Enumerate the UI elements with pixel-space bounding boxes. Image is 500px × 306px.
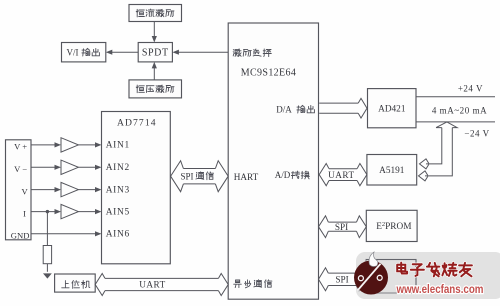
label 输出 bbox=[82, 48, 90, 56]
arrowhead into buffer 1 bbox=[55, 142, 62, 147]
bus arrow D/A output MCU-AD421 bbox=[319, 102, 358, 104]
watermark logo slot bbox=[358, 264, 381, 291]
junction dot on I wire bbox=[46, 210, 49, 213]
wire buffer 2 to AD7714 bbox=[78, 166, 96, 168]
svg-text:UART: UART bbox=[328, 170, 354, 180]
watermark logo flame bbox=[369, 252, 378, 267]
svg-text:HART: HART bbox=[234, 172, 259, 182]
arrowhead into SPDT bottom bbox=[152, 62, 157, 69]
label 异步通信 bbox=[234, 280, 242, 288]
arrowhead into AIN6 bbox=[95, 231, 102, 236]
svg-text:AIN2: AIN2 bbox=[106, 163, 130, 173]
watermark title halo bbox=[397, 263, 407, 274]
svg-text:A/D: A/D bbox=[275, 170, 291, 180]
svg-text:V/I: V/I bbox=[67, 47, 79, 57]
svg-text:V +: V + bbox=[14, 142, 27, 152]
wire loop-arrow right side down-left to A5191 bbox=[425, 128, 452, 176]
op-amp buffer U1 bbox=[61, 138, 78, 152]
wire terminal row 3 to buffer bbox=[31, 189, 56, 191]
label 输出 (D/A) bbox=[297, 105, 305, 113]
arrowhead into SPDT right bbox=[172, 50, 179, 55]
arrowhead into AIN2 bbox=[95, 165, 102, 170]
wire terminal row 2 to buffer bbox=[31, 166, 56, 168]
wire buffer 4 to AD7714 bbox=[78, 211, 96, 213]
bus arrow SPI MCU-display bbox=[328, 272, 356, 274]
label 通信 (SPI通信) bbox=[196, 172, 204, 180]
arrowhead into buffer 2 bbox=[55, 165, 62, 170]
arrowhead into AIN4 bbox=[95, 209, 102, 214]
block constant-current excitation (恒流激励) bbox=[129, 5, 182, 22]
memory block E2PROM bbox=[366, 210, 417, 241]
svg-text:V −: V − bbox=[14, 164, 27, 174]
wire MCU to SPDT bbox=[177, 51, 228, 53]
wire buffer 3 to AD7714 bbox=[78, 189, 96, 191]
svg-text:AIN1: AIN1 bbox=[106, 141, 130, 151]
wire SPDT to V/I output bbox=[111, 51, 138, 53]
svg-text:AD421: AD421 bbox=[378, 104, 406, 114]
svg-text:D/A: D/A bbox=[276, 104, 292, 114]
wire loop-arrow left side down-left to A5191 bbox=[426, 128, 442, 164]
svg-text:A5191: A5191 bbox=[379, 166, 405, 176]
DAC block AD421 bbox=[368, 89, 417, 128]
block SPDT switch bbox=[138, 43, 172, 62]
svg-text:AD7714: AD7714 bbox=[117, 118, 157, 129]
label 上位机 bbox=[62, 281, 69, 288]
MCU block MC9S12E64 (激励选择) bbox=[228, 23, 318, 299]
watermark logo disc bbox=[354, 261, 388, 295]
svg-text:SPI: SPI bbox=[180, 171, 193, 181]
wire GND to AIN6 bbox=[31, 233, 97, 235]
arrowhead into V/I output bbox=[106, 50, 113, 55]
svg-text:AIN5: AIN5 bbox=[106, 207, 130, 217]
hollow arrow A5191 to loop (up head) bbox=[436, 122, 457, 128]
open arrowhead into A5191 (lower) bbox=[419, 171, 428, 181]
display block top edge (over watermark plate) bbox=[366, 260, 416, 294]
display block (bottom right) bbox=[366, 260, 416, 294]
wire 恒压激励 to SPDT bbox=[153, 67, 155, 80]
block host computer (上位机) bbox=[55, 274, 96, 292]
wire 恒流激励 to SPDT bbox=[153, 22, 155, 38]
wire terminal row 1 to buffer bbox=[31, 144, 56, 146]
svg-text:+24 V: +24 V bbox=[458, 84, 483, 94]
label 转换 bbox=[291, 171, 299, 179]
bus arrow UART MCU-A5191 bbox=[329, 168, 357, 170]
svg-text:MC9S12E64: MC9S12E64 bbox=[241, 67, 296, 78]
watermark title 电子发烧友 bbox=[397, 263, 407, 274]
HART modem block A5191 bbox=[367, 155, 417, 186]
watermark logo ring left bbox=[358, 276, 363, 281]
svg-text:SPI: SPI bbox=[335, 222, 348, 232]
label 恒流激励 bbox=[136, 9, 144, 17]
svg-text:4 mA~20 mA: 4 mA~20 mA bbox=[432, 106, 487, 116]
svg-text:AIN6: AIN6 bbox=[106, 230, 130, 240]
arrowhead into buffer 4 bbox=[55, 209, 62, 214]
op-amp buffer U2 bbox=[61, 160, 78, 174]
svg-text:I: I bbox=[23, 208, 26, 218]
arrowhead into AIN1 bbox=[95, 142, 102, 147]
wire +24V rail bbox=[416, 96, 495, 98]
ADC block AD7714 bbox=[102, 112, 171, 264]
terminal block (V+,V-,V,I,GND) bbox=[6, 140, 32, 240]
watermark background plate bbox=[356, 252, 500, 299]
wire -24V rail bbox=[416, 121, 495, 123]
arrowhead into buffer 3 bbox=[55, 187, 62, 192]
svg-text:SPDT: SPDT bbox=[142, 48, 169, 59]
bus arrow SPI communication AD7714-MCU bbox=[183, 168, 215, 170]
wire resistor to ground arrow bbox=[46, 264, 48, 272]
resistor R1 (current sampling) bbox=[43, 246, 51, 264]
block V/I output (V/I输出) bbox=[62, 43, 106, 62]
op-amp buffer U3 bbox=[61, 182, 78, 196]
svg-text:−24 V: −24 V bbox=[464, 128, 489, 138]
arrowhead down from resistor bbox=[43, 273, 52, 278]
svg-text:SPI: SPI bbox=[335, 275, 348, 285]
label 恒压激励 bbox=[136, 85, 144, 93]
label 激励选择 bbox=[233, 49, 241, 56]
svg-text:V: V bbox=[21, 186, 28, 196]
arrowhead into SPDT top bbox=[152, 36, 157, 43]
block constant-voltage excitation (恒压激励) bbox=[129, 80, 182, 98]
op-amp buffer U4 bbox=[61, 204, 78, 218]
arrowhead into AIN3 bbox=[95, 187, 102, 192]
svg-text:AIN3: AIN3 bbox=[106, 185, 130, 195]
svg-text:E2PROM: E2PROM bbox=[376, 221, 411, 232]
open arrowhead into A5191 (upper) bbox=[420, 159, 429, 169]
svg-text:UART: UART bbox=[139, 280, 165, 290]
wire junction down to resistor bbox=[46, 212, 48, 246]
bus arrow UART host-MCU bbox=[105, 277, 218, 279]
svg-text:www.elecfans.com: www.elecfans.com bbox=[396, 282, 484, 296]
watermark logo ring right bbox=[377, 275, 382, 280]
svg-text:GND: GND bbox=[11, 230, 30, 240]
wire terminal row 4 to buffer bbox=[31, 211, 56, 213]
bus arrow SPI MCU-E2PROM bbox=[328, 221, 356, 223]
wire buffer 1 to AD7714 bbox=[78, 144, 96, 146]
